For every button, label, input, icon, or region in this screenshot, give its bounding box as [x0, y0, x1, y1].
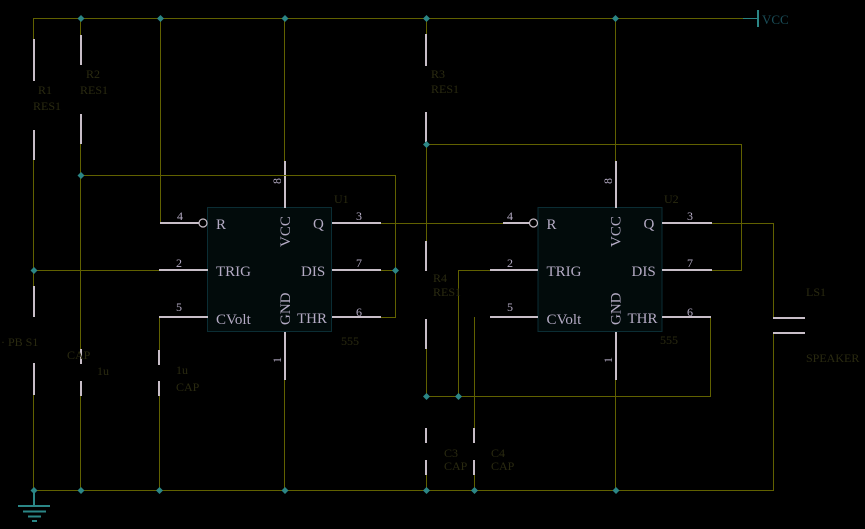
svg-text:· PB S1: · PB S1 [1, 335, 38, 349]
node A x=81 y=176 [78, 172, 85, 179]
capacitor C4 leads x=474 [473, 428, 475, 443]
U1 pin 8 VCC lead [284, 161, 286, 208]
wire left column vertical x=34 [33, 18, 34, 39]
svg-text:RES1: RES1 [433, 285, 461, 299]
svg-text:R3: R3 [431, 67, 445, 81]
resistor R2 leads x=81 [80, 35, 82, 65]
node top rail x=427 [423, 15, 430, 22]
svg-text:4: 4 [177, 209, 183, 223]
U1 pin 4 reset lead [160, 222, 199, 224]
resistor R4 leads x=427 [425, 241, 427, 271]
wire DIS1 stub [380, 270, 396, 271]
wire vertical x=396 node A to THR1 [395, 175, 396, 318]
svg-text:RES1: RES1 [431, 82, 459, 96]
resistor R3 leads x=427 [425, 34, 427, 66]
pushbutton S1 leads x=33 [33, 286, 35, 317]
node TRIG2 x=459 y=396 [455, 393, 462, 400]
node top rail x=616 [612, 15, 619, 22]
svg-text:CAP: CAP [67, 348, 91, 362]
svg-text:3: 3 [356, 209, 362, 223]
U1 pin 3 Q lead [332, 222, 381, 224]
svg-text:5: 5 [176, 300, 182, 314]
ground symbol [33, 492, 35, 506]
capacitor C1 leads x=81 [80, 349, 82, 364]
capacitor C2 leads x=159 [158, 350, 160, 365]
wire node A horizontal y=176 [80, 175, 396, 176]
svg-text:VCC: VCC [762, 12, 789, 27]
wire TRIG1 horizontal y=270 [34, 270, 160, 271]
wire column x=81 [80, 18, 81, 35]
svg-text:RES1: RES1 [80, 83, 108, 97]
wire top VCC rail [34, 18, 743, 19]
svg-text:TRIG: TRIG [216, 264, 251, 280]
wire Q2 olive y=223 [711, 223, 774, 224]
svg-text:TRIG: TRIG [547, 264, 582, 280]
op-amp U1 555 timer box [208, 208, 332, 332]
U2 pin 1 GND lead [615, 332, 617, 380]
svg-text:555: 555 [660, 333, 678, 347]
U1 pin 7 DIS lead [332, 269, 381, 271]
svg-text:DIS: DIS [301, 264, 325, 280]
wire U2 pin8 column x=616 [615, 18, 616, 161]
wire Q1 to R4bar of U2 y=223 [381, 223, 503, 224]
svg-text:CAP: CAP [176, 380, 200, 394]
U1 pin 4 bubble [199, 219, 207, 227]
svg-text:CVolt: CVolt [216, 312, 252, 328]
capacitor C3 leads x=427 [425, 428, 427, 443]
wire crossing over U1 pin8 lead [282, 175, 288, 176]
wire THR1 stub [381, 317, 396, 318]
svg-text:R2: R2 [86, 67, 100, 81]
svg-text:R: R [216, 217, 226, 233]
U2 pin 2 TRIG lead [490, 269, 538, 271]
wire TRIG2 vertical x=459 [458, 270, 459, 397]
svg-text:C3: C3 [444, 446, 458, 460]
wire column x=427 segments [426, 18, 427, 34]
svg-text:R: R [547, 217, 557, 233]
wire DIS2 vertical x=742 [741, 144, 742, 271]
svg-text:555: 555 [341, 334, 359, 348]
U2 pin 6 THR lead [662, 316, 711, 318]
node bottom rail x=81 [78, 487, 85, 494]
svg-text:7: 7 [687, 256, 693, 270]
svg-text:6: 6 [356, 305, 362, 319]
svg-text:LS1: LS1 [806, 285, 826, 299]
wire node B horizontal y=144 [426, 144, 742, 145]
resistor R1 leads x=33 [33, 39, 35, 81]
node bottom rail x=34 [31, 487, 38, 494]
svg-text:U1: U1 [334, 192, 349, 206]
node TRIG1 x=34 y=270 [31, 267, 38, 274]
svg-text:5: 5 [507, 300, 513, 314]
U2 pin 7 DIS lead [662, 269, 712, 271]
svg-text:CVolt: CVolt [547, 312, 583, 328]
U2 pin 4 bubble [530, 219, 538, 227]
node C x=427 y=396 [423, 393, 430, 400]
wire node C horizontal y=396 [426, 396, 711, 397]
op-amp U2 555 timer box [538, 208, 662, 332]
U2 pin 3 Q lead [662, 222, 712, 224]
svg-text:GND: GND [278, 292, 294, 325]
U2 pin 4 reset lead [503, 222, 530, 224]
node bottom rail x=616 [613, 487, 620, 494]
wire TRIG2 stub y=270 [458, 270, 490, 271]
node DIS1 x=396 y=270 [392, 267, 399, 274]
svg-text:THR: THR [297, 311, 327, 327]
wire THR2 vertical x=711 [710, 317, 711, 397]
wire CVolt1 column x=159 [159, 317, 160, 350]
wire U2 pin1 column x=616 [615, 379, 616, 491]
wire U1 pin8 column x=285 [284, 18, 285, 161]
svg-text:VCC: VCC [609, 216, 625, 247]
U1 pin 6 THR lead [332, 316, 381, 318]
svg-text:2: 2 [176, 256, 182, 270]
U1 pin 5 CVolt lead [159, 316, 208, 318]
svg-text:GND: GND [609, 292, 625, 325]
svg-text:SPEAKER: SPEAKER [806, 351, 859, 365]
svg-text:RES1: RES1 [33, 99, 61, 113]
U2 pin 8 VCC lead [615, 161, 617, 208]
node bottom rail x=285 [282, 487, 289, 494]
svg-text:CAP: CAP [491, 459, 515, 473]
svg-text:DIS: DIS [632, 264, 656, 280]
U1 pin 1 GND lead [284, 332, 286, 380]
node B x=427 y=144 [423, 141, 430, 148]
svg-text:1u: 1u [176, 363, 188, 377]
wire CVolt2 column x=474 [474, 317, 475, 429]
VCC power symbol [743, 18, 757, 19]
svg-text:1: 1 [601, 357, 615, 363]
node top rail x=160 [157, 15, 164, 22]
svg-text:1: 1 [270, 357, 284, 363]
svg-text:Q: Q [644, 217, 655, 233]
node top rail x=81 [78, 15, 85, 22]
svg-text:U2: U2 [664, 192, 679, 206]
node bottom rail x=159 [156, 487, 163, 494]
node bottom rail x=427 [423, 487, 430, 494]
node top rail x=285 [282, 15, 289, 22]
svg-text:6: 6 [687, 305, 693, 319]
wire DIS2 olive y=270 [711, 270, 742, 271]
svg-text:7: 7 [356, 256, 362, 270]
svg-text:THR: THR [628, 311, 658, 327]
node bottom rail x=474 [471, 487, 478, 494]
svg-text:C4: C4 [491, 446, 505, 460]
wire reset pullup x=160 [160, 18, 161, 223]
svg-text:CAP: CAP [444, 459, 468, 473]
svg-text:VCC: VCC [278, 216, 294, 247]
svg-text:R1: R1 [38, 83, 52, 97]
wire speaker column x=774 [773, 223, 774, 317]
svg-text:1u: 1u [97, 364, 109, 378]
wire bottom ground rail [34, 490, 774, 491]
svg-text:4: 4 [507, 209, 513, 223]
svg-text:8: 8 [601, 178, 615, 184]
U2 pin 5 CVolt lead [490, 316, 538, 318]
svg-text:Q: Q [313, 217, 324, 233]
U1 pin 2 TRIG lead [159, 269, 208, 271]
svg-text:8: 8 [270, 178, 284, 184]
svg-text:2: 2 [507, 256, 513, 270]
svg-text:R4: R4 [433, 271, 447, 285]
svg-text:3: 3 [687, 209, 693, 223]
speaker LS1 plates [773, 317, 805, 319]
wire U1 pin1 column x=285 [284, 379, 285, 491]
